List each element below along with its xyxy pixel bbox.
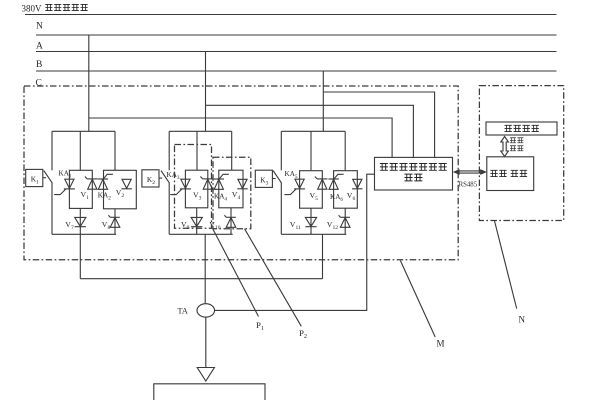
module N dashed enclosure (479, 86, 563, 221)
wire K1 stub (43, 177, 46, 179)
thyristor V5r (317, 178, 327, 180)
wire V9 branch (196, 208, 198, 235)
wire module 1 branch A drop (79, 131, 81, 170)
control module box (486, 122, 557, 135)
svg-text:TA: TA (178, 307, 188, 316)
svg-text:V7: V7 (65, 220, 74, 231)
svg-text:K3: K3 (260, 175, 268, 186)
wire module 2 bottom rail (169, 233, 233, 235)
RS485 left arrowhead (453, 169, 460, 175)
wire module3 output drop (322, 234, 324, 278)
svg-text:N: N (36, 22, 43, 32)
wire tap from B bus to module 3 (322, 71, 324, 131)
title 380V three-phase four-wire label (22, 4, 88, 14)
thyristor V2 (122, 179, 131, 188)
load box (154, 384, 265, 400)
module M dashed enclosure (C bus dash-dot top edge) (24, 86, 458, 260)
wire module 1 bottom rail (52, 233, 116, 235)
thyristor V1r (87, 178, 97, 180)
wire common output rail (80, 278, 322, 280)
wire module 2 top rail (169, 130, 232, 132)
wire module1 output drop (79, 234, 81, 278)
wire module 3 top rail (281, 130, 345, 132)
wire module 3 bypass branch lower (280, 183, 282, 234)
wire sense line from module1 tap to controller U1 (89, 118, 392, 157)
wire module 1 bypass branch lower (51, 183, 53, 234)
diode V11 (305, 217, 316, 226)
wire A phase bus (36, 51, 557, 53)
svg-text:RS485: RS485 (459, 181, 478, 188)
wire V8 branch (114, 209, 116, 235)
diode V7 (75, 217, 86, 226)
wire module 3 bottom rail (281, 233, 346, 235)
wire B phase bus (36, 70, 557, 72)
wire V11 branch (310, 208, 312, 234)
current transformer TA (197, 304, 215, 317)
svg-text:KA4: KA4 (214, 193, 227, 203)
wire rail to TA (204, 279, 206, 304)
svg-text:K2: K2 (147, 175, 155, 186)
svg-text:V1: V1 (81, 190, 90, 201)
svg-text:V9: V9 (181, 220, 190, 231)
diode V10 (226, 216, 236, 218)
wire module 3 branch A drop (310, 131, 312, 170)
wire V7 branch (79, 208, 81, 234)
switch blade K2 (161, 171, 170, 184)
svg-text:V12: V12 (327, 220, 338, 231)
svg-text:V6: V6 (347, 191, 356, 202)
wire sense line from module3 tap to controller U1 (323, 92, 434, 157)
RS485 right arrowhead (480, 169, 487, 175)
svg-text:KA3: KA3 (167, 171, 180, 181)
diode V9 (191, 217, 202, 226)
wire module 2 branch B drop (231, 131, 233, 170)
diode V8 (110, 216, 120, 218)
wire RS485 double line (457, 171, 483, 173)
thyristor V1 (65, 179, 74, 188)
svg-text:P2: P2 (299, 328, 307, 340)
thyristor V6l (328, 178, 338, 180)
svg-text:V3: V3 (193, 191, 202, 202)
wire tap from N bus to module 1 (88, 35, 90, 131)
wire K2 stub (159, 177, 162, 179)
carrier module box (487, 157, 534, 191)
dashed box P2 around V4/V10 branch (213, 157, 251, 228)
pointer line P2 (245, 229, 302, 327)
switch blade K3 (273, 171, 282, 184)
thyristor V4 (238, 179, 247, 188)
relay K1 coil box (26, 169, 43, 186)
wire module 2 branch A drop (196, 131, 198, 170)
wire module 1 bypass branch upper (51, 131, 53, 170)
wire tap from A bus to module 2 (205, 52, 207, 132)
thyristor pair box V1 (69, 170, 92, 208)
thyristor V3r (203, 178, 213, 180)
svg-text:V5: V5 (310, 191, 319, 202)
svg-text:KA6: KA6 (330, 193, 343, 203)
thyristor pair box V6 (334, 171, 358, 209)
thyristor pair box V5 (300, 171, 323, 209)
svg-text:V4: V4 (232, 190, 241, 201)
wire top border line (25, 14, 557, 16)
wire TA sense to controller U1 (215, 174, 375, 310)
wire V10 branch (230, 208, 232, 235)
wire module 2 bypass branch upper (168, 131, 170, 170)
wire module2 output drop (204, 234, 206, 278)
svg-text:C: C (36, 78, 42, 88)
thyristor V5 (295, 179, 304, 188)
thyristor V4l (214, 178, 224, 180)
svg-text:V11: V11 (290, 220, 301, 231)
pointer line M (400, 261, 435, 337)
svg-text:V8: V8 (102, 220, 111, 231)
wire K3 stub (272, 178, 275, 180)
double arrow control-carrier (501, 137, 509, 157)
wire V12 branch (344, 208, 346, 234)
pointer line N (494, 221, 516, 309)
svg-text:380V: 380V (22, 4, 43, 14)
wire N phase bus (36, 34, 557, 36)
wire TA to load arrow (205, 317, 207, 367)
thyristor pair box V4 (219, 170, 243, 208)
thyristor V3 (181, 179, 190, 188)
svg-text:KA5: KA5 (285, 170, 298, 180)
svg-text:M: M (437, 339, 445, 349)
pointer line P1 (213, 228, 259, 316)
svg-text:N: N (519, 314, 526, 324)
svg-text:P1: P1 (256, 320, 264, 332)
diode V12 (340, 216, 350, 218)
svg-text:V2: V2 (116, 188, 125, 199)
wire module 2 bypass branch lower (168, 183, 170, 234)
thyristor pair box V3 (185, 170, 207, 208)
label carrier-comm (510, 138, 523, 151)
dashed box P1 around V3/V9 branch (175, 145, 212, 229)
thyristor V6 (353, 179, 362, 188)
svg-text:KA2: KA2 (98, 192, 111, 202)
switch blade K1 (44, 171, 53, 184)
wire module 1 branch B drop (114, 131, 116, 170)
controller U1 box (phase selection switch controller unit) (375, 157, 453, 190)
arrow to load (197, 368, 214, 382)
wire module 1 top rail (52, 130, 115, 132)
wire module 3 bypass branch upper (280, 131, 282, 170)
relay K3 coil box (255, 170, 272, 187)
svg-text:A: A (36, 41, 43, 51)
svg-text:K1: K1 (31, 175, 39, 186)
wire sense line from module2 tap to controller U1 (206, 105, 414, 157)
svg-text:B: B (36, 60, 42, 70)
wire module 3 branch B drop (344, 131, 346, 170)
thyristor V2l (98, 178, 108, 180)
relay K2 coil box (142, 170, 159, 187)
thyristor pair box V2 (104, 170, 137, 209)
